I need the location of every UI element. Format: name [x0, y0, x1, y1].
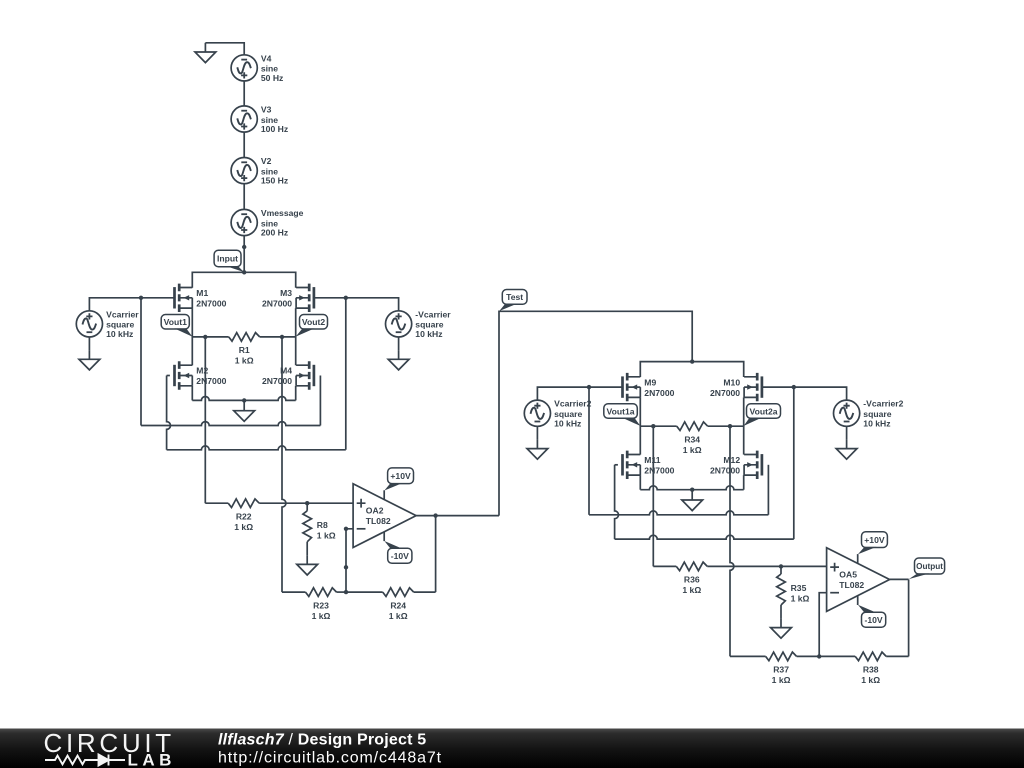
- wire -Vcarrier2 gate rail: [762, 385, 847, 400]
- wire Vout2 drop to R23 (hops R22 row): [282, 337, 286, 592]
- flag -10V (OA2): [384, 541, 412, 563]
- svg-text:Vout2a: Vout2a: [749, 406, 777, 416]
- wire M4 source to source rail: [295, 386, 297, 401]
- wire M3 source / M4 drain: [295, 308, 297, 365]
- svg-text:R38: R38: [863, 665, 879, 675]
- wire -Vcarrier gate rail: [314, 296, 399, 311]
- wire rail B2 to -Vcarrier2 branch (crossover): [615, 387, 794, 539]
- wire OA2 inverting input: [344, 527, 353, 593]
- resistor R37 1 kOhm: [730, 652, 819, 685]
- wire OA2 output: [416, 513, 499, 517]
- node Test junction: [690, 359, 694, 363]
- wire drain rail (M9/M10 tops): [640, 362, 743, 377]
- wire Vcarrier to ground: [88, 337, 90, 350]
- svg-text:Vcarrier: Vcarrier: [106, 309, 139, 319]
- svg-text:OA5: OA5: [839, 569, 857, 579]
- wire source rail 2 with hops: [640, 486, 743, 492]
- flag +10V (OA5): [858, 532, 888, 555]
- node Vout1 junction: [203, 335, 207, 339]
- svg-text:1 kΩ: 1 kΩ: [317, 530, 336, 540]
- svg-text:Vmessage: Vmessage: [261, 208, 304, 218]
- svg-text:R1: R1: [239, 345, 250, 355]
- transistor M11 2N7000: [623, 451, 675, 479]
- svg-text:R34: R34: [684, 434, 700, 444]
- CircuitLab logo resistor-diode glyph: [45, 755, 125, 766]
- wire Vcarrier2 branch down to rail A2: [588, 387, 590, 515]
- wire drain rail (M1/M3 tops): [192, 272, 295, 287]
- ground G2 (block): [234, 400, 255, 421]
- voltage source Vcarrier2 square 10 kHz: [524, 399, 591, 429]
- svg-text:M9: M9: [644, 377, 656, 387]
- svg-text:R37: R37: [773, 665, 789, 675]
- flag Vout2a: [744, 404, 781, 426]
- svg-text:1 kΩ: 1 kΩ: [312, 611, 331, 621]
- wire M9 source / M11 drain: [639, 397, 641, 454]
- ground G3 (Vcarrier): [79, 350, 100, 370]
- wire OA5 output: [890, 578, 909, 580]
- transistor M2 2N7000: [175, 361, 227, 389]
- svg-text:-10V: -10V: [865, 615, 883, 625]
- svg-text:M1: M1: [196, 288, 208, 298]
- wire Vcarrier2 to ground: [536, 426, 538, 439]
- wire Vcarrier branch down to rail A: [140, 298, 142, 426]
- node R8 junction: [305, 501, 309, 505]
- resistor R23 1 kOhm: [282, 588, 346, 621]
- flag -10V (OA5): [858, 605, 886, 627]
- node Input junction: [242, 270, 246, 274]
- svg-text:10 kHz: 10 kHz: [106, 329, 133, 339]
- svg-text:2N7000: 2N7000: [644, 466, 674, 476]
- wire -Vcarrier2 to ground: [846, 426, 848, 439]
- ground G6 (block 2): [682, 490, 703, 511]
- svg-text:2N7000: 2N7000: [196, 299, 226, 309]
- wire M1 source / M2 drain: [191, 308, 193, 365]
- wire ground to V4 top: [205, 43, 244, 55]
- wire V2 to Vmessage: [243, 184, 245, 210]
- svg-text:10 kHz: 10 kHz: [554, 418, 581, 428]
- resistor R38 1 kOhm: [819, 652, 908, 685]
- wire M2 source to source rail: [191, 386, 193, 401]
- svg-text:Vout1: Vout1: [164, 317, 187, 327]
- wire Vout2a drop to R37 (hops R36 row): [730, 426, 734, 656]
- resistor R36 1 kOhm: [653, 562, 826, 595]
- svg-text:llflasch7 / Design Project 5: llflasch7 / Design Project 5: [218, 732, 426, 749]
- wire M12 source to source rail: [743, 475, 745, 490]
- flag Vout1a: [604, 404, 641, 426]
- wire M10 source / M12 drain: [743, 397, 745, 454]
- resistor R22 1 kOhm: [205, 499, 353, 532]
- transistor M12 2N7000: [710, 451, 762, 479]
- transistor M9 2N7000: [623, 373, 675, 401]
- wire M11 gate down (hops rail A2): [615, 465, 619, 539]
- svg-text:Vout2: Vout2: [302, 317, 325, 327]
- svg-text:10 kHz: 10 kHz: [415, 329, 442, 339]
- svg-text:2N7000: 2N7000: [262, 376, 292, 386]
- svg-text:+10V: +10V: [864, 535, 885, 545]
- svg-text:100 Hz: 100 Hz: [261, 124, 288, 134]
- svg-text:OA2: OA2: [366, 505, 384, 515]
- svg-text:1 kΩ: 1 kΩ: [861, 675, 880, 685]
- wire feedback drop 2: [908, 579, 910, 656]
- footer bar: [0, 729, 1024, 768]
- svg-text:http://circuitlab.com/c448a7t: http://circuitlab.com/c448a7t: [218, 750, 442, 767]
- node R35 junction: [779, 564, 783, 568]
- wire OA5 +10V pin: [857, 554, 859, 563]
- wire Vout1a drop to R36: [652, 426, 654, 566]
- op-amp OA2 TL082: [353, 484, 416, 548]
- svg-text:50 Hz: 50 Hz: [261, 73, 283, 83]
- footer title text: [218, 732, 426, 749]
- voltage source V3 sine 100 Hz: [231, 105, 288, 135]
- svg-text:LAB: LAB: [128, 751, 176, 768]
- node R23/R24 junction: [344, 590, 348, 594]
- wire Vcarrier2 gate rail: [537, 385, 622, 400]
- wire OA2 -10V pin: [383, 532, 385, 541]
- wire Test net (OA2 out to second block): [499, 311, 692, 515]
- svg-text:TL082: TL082: [366, 516, 391, 526]
- svg-text:Vcarrier2: Vcarrier2: [554, 399, 591, 409]
- flag Input: [214, 250, 244, 272]
- voltage source V2 sine 150 Hz: [231, 156, 288, 186]
- svg-text:10 kHz: 10 kHz: [863, 418, 890, 428]
- wire Vout1 drop to R22: [204, 337, 206, 503]
- transistor M3 2N7000: [262, 284, 314, 312]
- wire Vcarrier gate rail: [89, 296, 174, 311]
- svg-text:R8: R8: [317, 520, 328, 530]
- wire OA5 inverting input: [819, 593, 826, 657]
- svg-text:Output: Output: [916, 562, 943, 571]
- svg-text:Input: Input: [217, 254, 238, 264]
- svg-text:V4: V4: [261, 53, 272, 63]
- voltage source Vmessage sine 200 Hz: [231, 208, 304, 238]
- wire rail B to -Vcarrier branch (crossover): [167, 298, 346, 450]
- svg-text:R35: R35: [791, 583, 807, 593]
- resistor R1 1 kOhm: [192, 333, 295, 366]
- svg-text:2N7000: 2N7000: [710, 466, 740, 476]
- flag Test: [499, 290, 527, 312]
- svg-text:M12: M12: [723, 455, 740, 465]
- wire M2 gate down (hops rail A): [167, 376, 171, 450]
- svg-text:V2: V2: [261, 156, 272, 166]
- svg-text:1 kΩ: 1 kΩ: [772, 675, 791, 685]
- ground G7 (Vcarrier2): [527, 439, 548, 459]
- svg-text:Test: Test: [506, 292, 523, 302]
- wire rail A to M4 gate (crossover): [141, 376, 320, 426]
- flag Vout2: [296, 315, 328, 337]
- wire V4 to V3: [243, 81, 245, 106]
- resistor R35 1 kOhm: [777, 566, 810, 618]
- node Vout2a junction: [728, 424, 732, 428]
- svg-text:M10: M10: [723, 377, 740, 387]
- wire -Vcarrier to ground: [398, 337, 400, 350]
- svg-text:150 Hz: 150 Hz: [261, 176, 288, 186]
- svg-text:R24: R24: [390, 600, 406, 610]
- svg-text:200 Hz: 200 Hz: [261, 228, 288, 238]
- svg-text:2N7000: 2N7000: [710, 388, 740, 398]
- wire source rail with hops: [192, 396, 295, 402]
- CircuitLab logo LAB text: [128, 751, 176, 768]
- svg-text:1 kΩ: 1 kΩ: [791, 594, 810, 604]
- svg-text:2N7000: 2N7000: [262, 299, 292, 309]
- resistor R24 1 kOhm: [346, 588, 436, 621]
- wire V3 to V2: [243, 132, 245, 157]
- svg-text:-Vcarrier2: -Vcarrier2: [863, 399, 903, 409]
- resistor R8 1 kOhm: [303, 503, 336, 555]
- wire Vmessage to Input node: [242, 236, 246, 273]
- node Vout2 junction: [280, 335, 284, 339]
- svg-text:-10V: -10V: [391, 551, 409, 561]
- ground G1 (top left): [195, 43, 216, 63]
- svg-text:1 kΩ: 1 kΩ: [683, 445, 702, 455]
- svg-text:M2: M2: [196, 366, 208, 376]
- wire M11 source to source rail: [639, 475, 641, 490]
- svg-text:1 kΩ: 1 kΩ: [389, 611, 408, 621]
- svg-text:2N7000: 2N7000: [644, 388, 674, 398]
- svg-text:+10V: +10V: [390, 471, 411, 481]
- resistor R34 1 kOhm: [640, 422, 743, 455]
- transistor M10 2N7000: [710, 373, 762, 401]
- wire OA5 -10V pin: [857, 596, 859, 605]
- transistor M4 2N7000: [262, 361, 314, 389]
- voltage source V4 sine 50 Hz: [231, 53, 283, 83]
- svg-text:1 kΩ: 1 kΩ: [235, 356, 254, 366]
- voltage source -Vcarrier2 square 10 kHz: [834, 399, 904, 429]
- flag Vout1: [161, 315, 192, 337]
- wire rail A2 to M12 gate (crossover): [589, 465, 768, 515]
- svg-text:Vout1a: Vout1a: [607, 406, 635, 416]
- flag +10V (OA2): [384, 468, 413, 491]
- wire OA2 +10V pin: [383, 490, 385, 499]
- svg-text:TL082: TL082: [839, 580, 864, 590]
- ground G4 (-Vcarrier): [388, 350, 409, 370]
- svg-text:R23: R23: [313, 600, 329, 610]
- footer url text: [218, 750, 442, 767]
- svg-text:M3: M3: [280, 288, 292, 298]
- voltage source -Vcarrier square 10 kHz: [386, 309, 452, 339]
- node Vout1a junction: [651, 424, 655, 428]
- svg-text:R22: R22: [236, 511, 252, 521]
- svg-text:2N7000: 2N7000: [196, 376, 226, 386]
- svg-text:1 kΩ: 1 kΩ: [234, 522, 253, 532]
- CircuitLab logo CIRCUIT text: [44, 728, 175, 758]
- svg-text:V3: V3: [261, 105, 272, 115]
- flag Output: [909, 558, 945, 579]
- wire feedback drop: [435, 516, 437, 593]
- node R37/R38 junction: [817, 654, 821, 658]
- ground G5 (R8): [297, 555, 318, 575]
- svg-text:-Vcarrier: -Vcarrier: [415, 309, 451, 319]
- voltage source Vcarrier square 10 kHz: [76, 309, 139, 339]
- svg-text:R36: R36: [684, 575, 700, 585]
- ground G9 (R35): [771, 618, 792, 638]
- ground G8 (-Vcarrier2): [836, 439, 857, 459]
- op-amp OA5 TL082: [827, 548, 890, 612]
- transistor M1 2N7000: [175, 284, 227, 312]
- svg-text:1 kΩ: 1 kΩ: [682, 585, 701, 595]
